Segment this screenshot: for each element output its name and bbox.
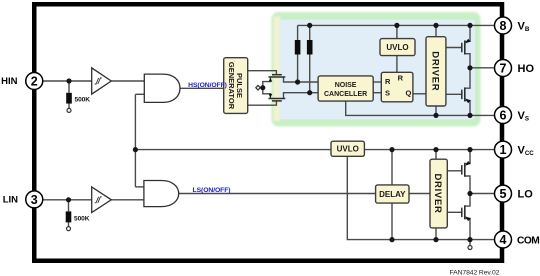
svg-text:7: 7 <box>500 61 507 75</box>
svg-text:R: R <box>385 77 391 86</box>
svg-text:500K: 500K <box>74 216 90 223</box>
svg-text:2: 2 <box>31 74 38 88</box>
svg-text:6: 6 <box>500 108 507 122</box>
svg-text:LS(ON/OFF): LS(ON/OFF) <box>193 187 231 194</box>
svg-text:5: 5 <box>500 187 507 201</box>
svg-text:LO: LO <box>518 189 534 201</box>
svg-text:1: 1 <box>500 143 507 157</box>
svg-text:3: 3 <box>31 193 38 207</box>
svg-text:S: S <box>385 88 390 97</box>
svg-text:8: 8 <box>500 19 507 33</box>
svg-text:LIN: LIN <box>3 194 18 205</box>
svg-text:HO: HO <box>518 63 535 75</box>
svg-text:FAN7842 Rev.02: FAN7842 Rev.02 <box>450 269 500 276</box>
svg-text:DRIVER: DRIVER <box>430 51 441 91</box>
svg-text:UVLO: UVLO <box>386 43 408 52</box>
svg-text:UVLO: UVLO <box>337 145 359 154</box>
svg-text:NOISE: NOISE <box>335 82 357 89</box>
svg-text:HS(ON/OFF): HS(ON/OFF) <box>188 82 227 89</box>
svg-text:500K: 500K <box>75 97 91 104</box>
svg-text:DELAY: DELAY <box>379 190 406 199</box>
svg-text:4: 4 <box>500 233 507 247</box>
svg-text:HIN: HIN <box>1 76 18 87</box>
svg-text:COM: COM <box>517 236 539 247</box>
svg-text:CANCELLER: CANCELLER <box>324 91 367 98</box>
svg-text:DRIVER: DRIVER <box>432 173 443 213</box>
svg-text:Q: Q <box>406 89 412 98</box>
svg-text:R: R <box>398 73 404 82</box>
